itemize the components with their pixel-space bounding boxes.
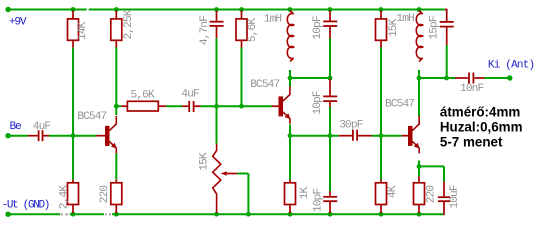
svg-text:4uF: 4uF <box>33 121 51 133</box>
svg-text:5-7 menet: 5-7 menet <box>440 135 503 150</box>
capacitor 10pF middle <box>329 79 331 96</box>
svg-text:+9V: +9V <box>9 17 27 29</box>
wire 4K column <box>380 136 382 180</box>
wire output <box>484 77 510 79</box>
svg-text:4,7nF: 4,7nF <box>199 16 211 45</box>
svg-text:BC547: BC547 <box>385 99 414 111</box>
capacitor 4uF input <box>28 135 38 137</box>
node gnd 220 Q1 <box>114 212 119 217</box>
wire Q3 collector stub <box>418 78 420 117</box>
wire Q2 collector stub <box>289 78 291 87</box>
svg-text:5,6K: 5,6K <box>247 18 259 42</box>
node Q2 collector <box>288 76 293 81</box>
node rail coil1 <box>288 7 293 12</box>
wire 2,25K column <box>115 48 117 107</box>
node rail 4,7nF <box>214 7 219 12</box>
wire Q3 collector rail <box>419 77 455 79</box>
inductor 1mH L1 <box>287 11 293 62</box>
wire 15pF bottom <box>446 45 448 78</box>
wire gap artifacts <box>60 213 69 216</box>
wire top rail gap artifact <box>87 8 89 11</box>
node 10pF chain lower <box>328 133 333 138</box>
node base Q2 from 5,6K <box>239 104 244 109</box>
node GND terminal <box>5 212 10 217</box>
node 15pF junction <box>444 76 449 81</box>
capacitor 10uF <box>443 182 445 197</box>
svg-text:4uF: 4uF <box>181 89 199 101</box>
capacitor 10nF output <box>455 77 468 79</box>
node +9V terminal <box>5 7 10 12</box>
svg-text:220: 220 <box>99 185 111 204</box>
transistor Q1 BC547 <box>105 126 110 146</box>
node gnd 10pF <box>328 212 333 217</box>
svg-text:BC547: BC547 <box>77 111 106 123</box>
wire 15K column <box>380 48 382 136</box>
resistor 4K <box>380 180 382 183</box>
wire input Be <box>8 135 28 137</box>
wire pot top <box>216 106 218 144</box>
node Q3 collector <box>417 76 422 81</box>
node Q2 emitter <box>288 133 293 138</box>
node base Q2 from 4,7nF <box>214 104 219 109</box>
node gnd 4K <box>379 212 384 217</box>
svg-text:10pF: 10pF <box>312 189 324 212</box>
resistor 2,4K <box>72 136 74 183</box>
wire 10pF chain top <box>329 39 331 79</box>
node gnd 2,4K <box>71 212 76 217</box>
capacitor 15pF <box>445 10 447 22</box>
inductor 1mH L2 <box>416 11 422 62</box>
svg-text:15K: 15K <box>199 152 211 171</box>
svg-text:BC547: BC547 <box>250 79 279 91</box>
wire top +9V rail <box>8 9 87 11</box>
wire ground rail <box>8 213 444 215</box>
svg-text:15pF: 15pF <box>428 16 440 39</box>
node rail 5,6K <box>239 7 244 12</box>
capacitor 4,7nF <box>216 11 218 21</box>
svg-text:4K: 4K <box>387 185 399 198</box>
node rail 2,25K <box>114 7 119 12</box>
resistor 2,25K <box>115 11 117 19</box>
svg-text:14K: 14K <box>77 21 89 40</box>
svg-text:2,25K: 2,25K <box>123 9 135 39</box>
wire mid collector Q1 to base Q2 <box>116 105 121 107</box>
svg-text:Be: Be <box>10 121 21 133</box>
wire Q2 emitter stub <box>289 124 291 135</box>
svg-text:30pF: 30pF <box>339 119 362 131</box>
transistor Q3 BC547 <box>408 126 413 146</box>
potentiometer 15K <box>213 144 221 213</box>
node Q3 base <box>379 133 384 138</box>
wire 10pF chain middle <box>329 107 331 136</box>
wire 4,7nF column <box>216 38 218 106</box>
wire Q2 emitter line <box>290 135 339 137</box>
transistor Q2 BC547 <box>279 96 284 116</box>
wire Q2 collector to 10pF chain <box>290 77 330 79</box>
svg-text:1K: 1K <box>299 187 311 200</box>
wire coil1 bottom <box>289 70 291 78</box>
capacitor 10pF lower <box>329 191 331 196</box>
node gnd 220 Q3 <box>417 212 422 217</box>
node rail 14K <box>71 7 76 12</box>
resistor 1K <box>289 180 291 183</box>
node Q1 base input <box>71 133 76 138</box>
svg-text:10uF: 10uF <box>449 185 461 208</box>
svg-text:10nF: 10nF <box>460 83 483 95</box>
svg-text:1mH: 1mH <box>396 13 414 25</box>
resistor 5,6K series <box>121 105 127 107</box>
resistor 5,6K top <box>241 11 243 19</box>
svg-text:Huzal:0,6mm: Huzal:0,6mm <box>440 120 523 135</box>
node gnd pot <box>214 212 219 217</box>
wire 14K column <box>72 48 74 136</box>
node Ki terminal <box>507 75 512 80</box>
wire 2,4K column <box>72 136 74 180</box>
svg-text:2,4K: 2,4K <box>58 185 70 209</box>
wire 5,6K column <box>241 48 243 107</box>
capacitor 30pF <box>339 135 352 137</box>
svg-text:10pF: 10pF <box>312 16 324 39</box>
wire Q3 emitter to 10uF <box>419 165 444 167</box>
node gnd 1K <box>288 212 293 217</box>
svg-text:átmérő:4mm: átmérő:4mm <box>440 104 520 119</box>
wire Q3 emitter stub <box>418 161 420 167</box>
svg-text:220: 220 <box>425 185 437 204</box>
resistor 220 Q1 <box>115 180 117 183</box>
node gnd wiper <box>246 212 251 217</box>
svg-text:5,6K: 5,6K <box>131 89 155 101</box>
wire Q1 emitter to 220 <box>115 153 117 180</box>
node Q1 collector <box>114 104 119 109</box>
wire coil2 bottom <box>418 70 420 78</box>
node 10pF chain upper <box>328 76 333 81</box>
node rail coil2 <box>417 7 422 12</box>
node Q3 emitter <box>417 164 422 169</box>
resistor 220 Q3 <box>418 176 420 183</box>
capacitor 4uF series <box>182 105 188 107</box>
svg-text:Ki (Ant): Ki (Ant) <box>488 59 534 71</box>
capacitor 10pF upper <box>329 11 331 21</box>
node rail 15K <box>379 7 384 12</box>
svg-text:10pF: 10pF <box>312 91 324 114</box>
wire pot wiper to ground <box>237 173 248 175</box>
wire Q1 collector stub <box>115 106 117 115</box>
resistor 15K top <box>380 11 382 19</box>
node rail 10pF <box>328 7 333 12</box>
resistor 14K <box>72 11 74 19</box>
node Be terminal <box>5 133 10 138</box>
svg-text:-Ut (GND): -Ut (GND) <box>2 200 49 212</box>
svg-text:1mH: 1mH <box>264 13 282 25</box>
